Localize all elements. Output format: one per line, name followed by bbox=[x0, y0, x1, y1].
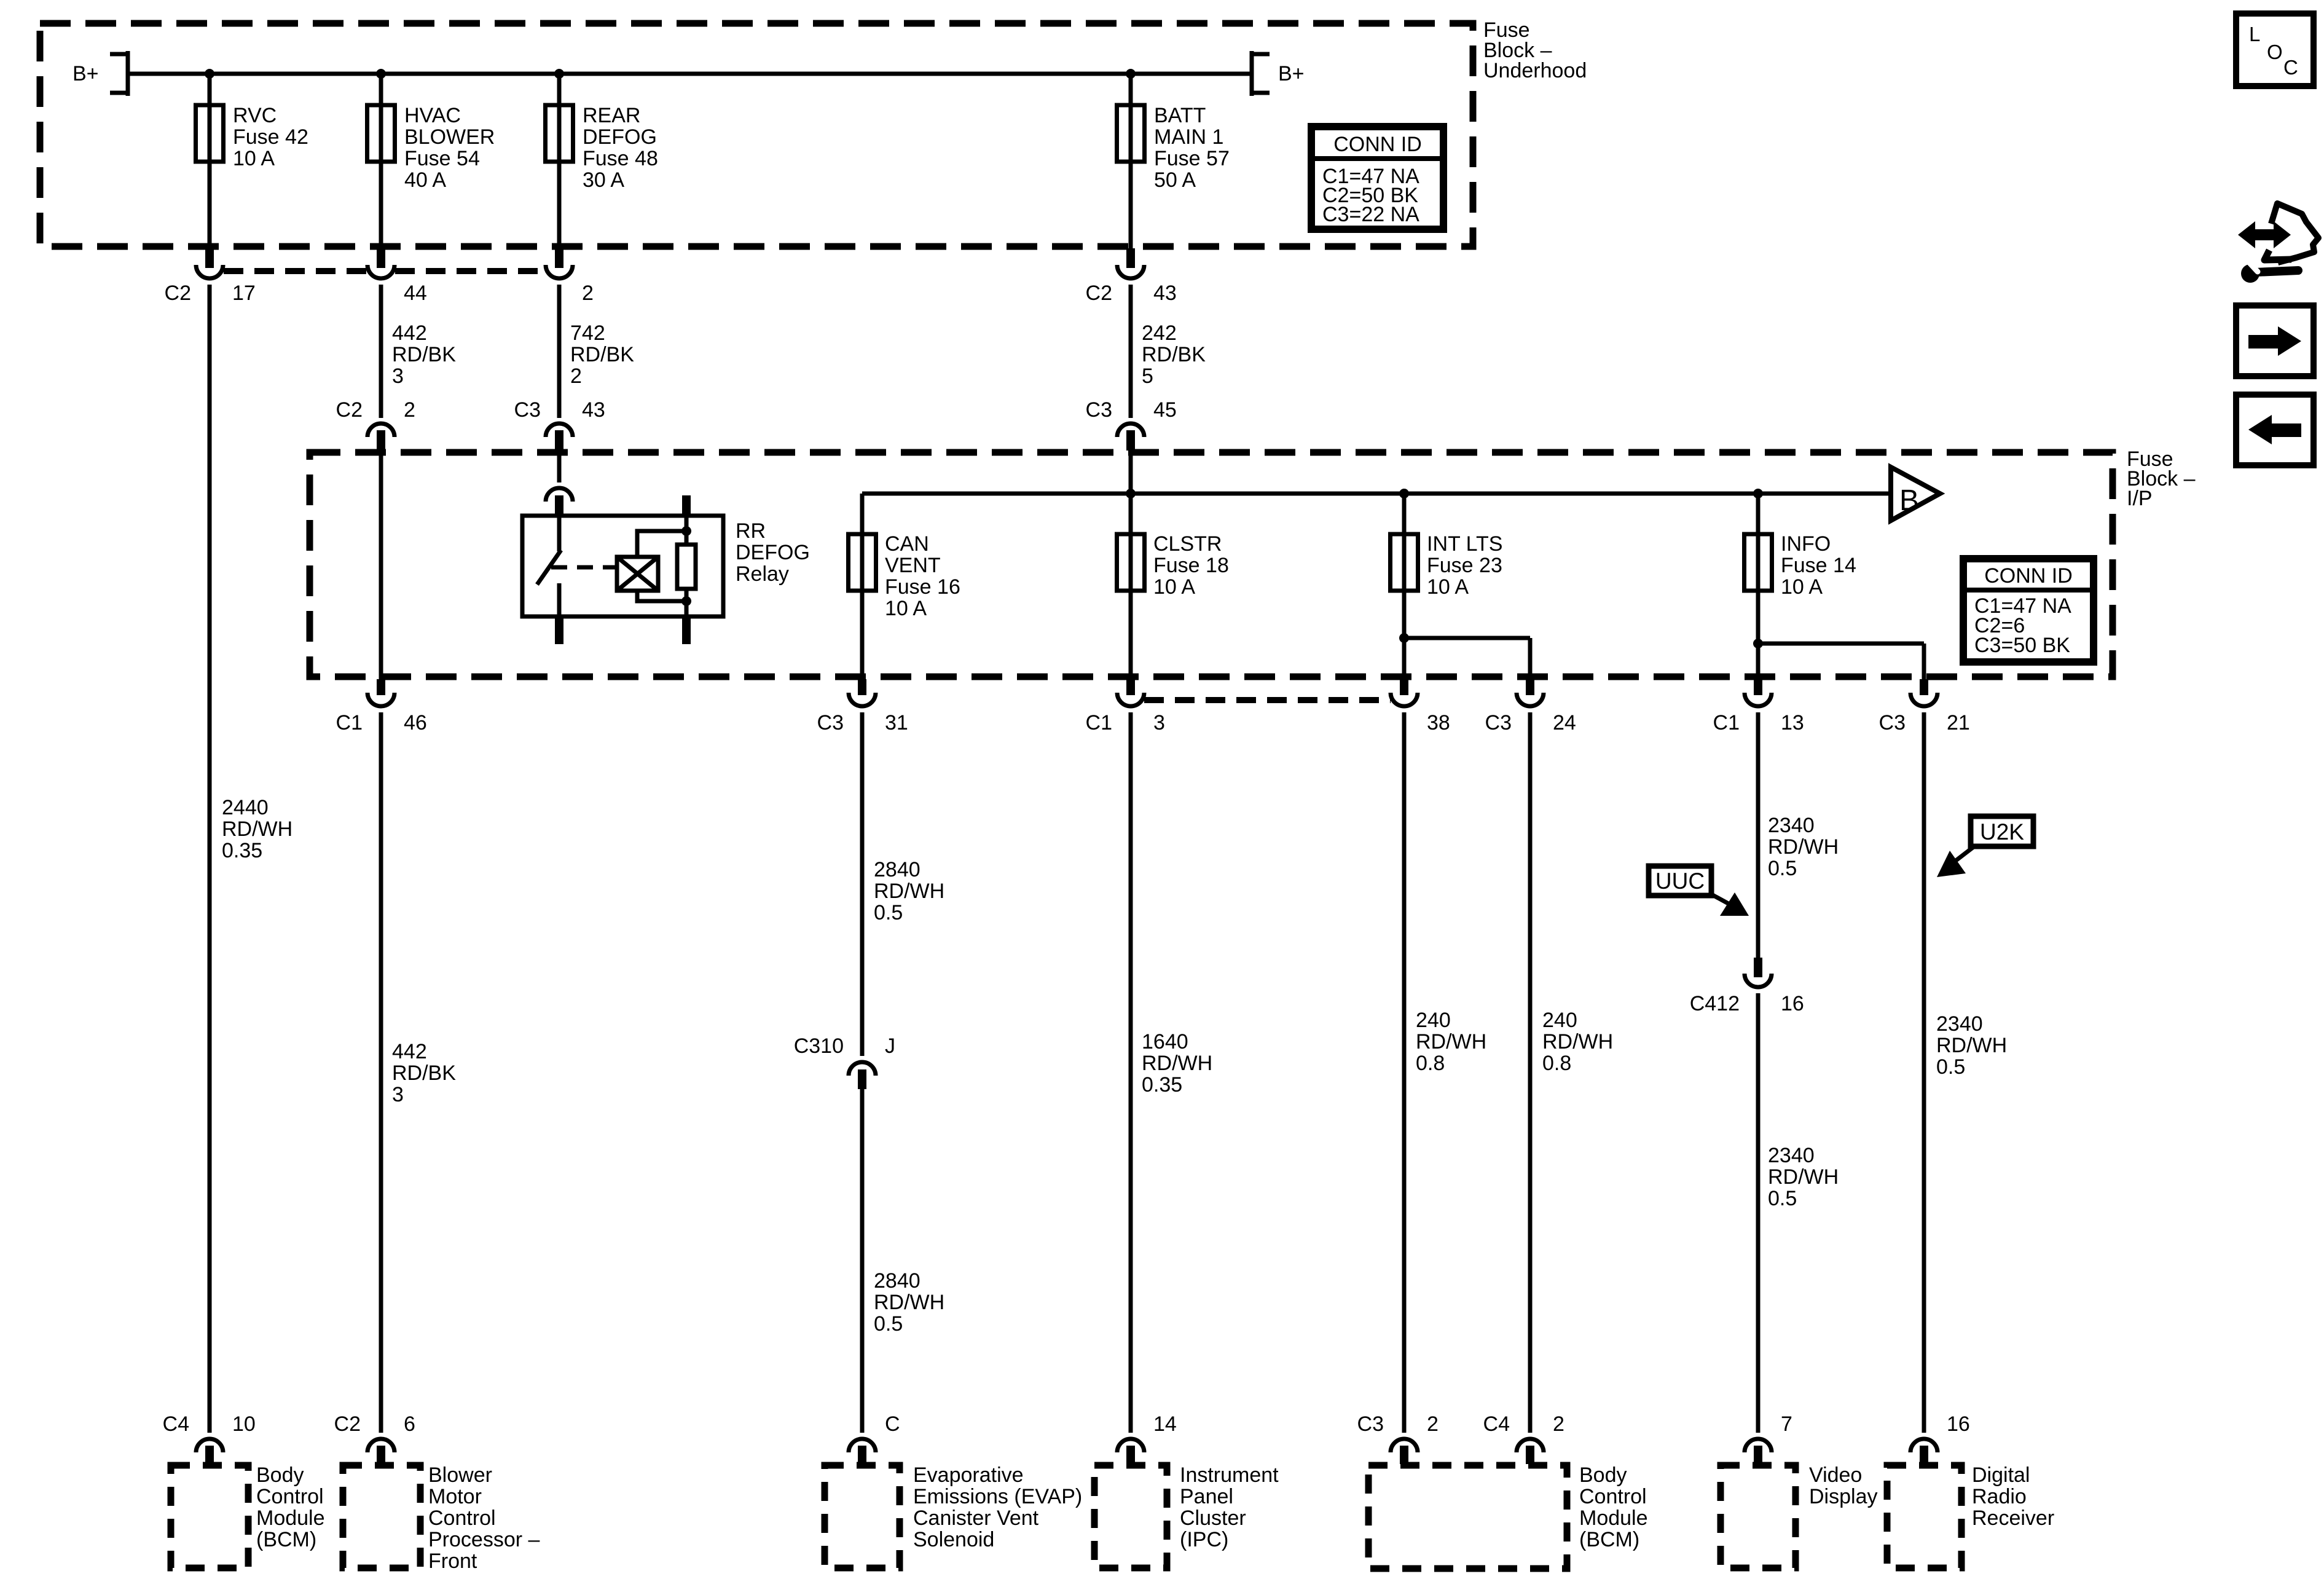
EVAP Canister Vent Solenoid box bbox=[825, 1463, 1082, 1568]
svg-text:Relay: Relay bbox=[736, 562, 789, 586]
svg-text:C3: C3 bbox=[514, 398, 541, 422]
svg-text:RD/WH: RD/WH bbox=[1416, 1030, 1486, 1053]
svg-text:Fuse 54: Fuse 54 bbox=[404, 147, 480, 170]
svg-text:10 A: 10 A bbox=[233, 147, 275, 170]
relay stub tick bottom right bbox=[682, 616, 691, 644]
junction node coil top bbox=[681, 526, 691, 536]
wire 442 inside I/P bbox=[379, 451, 383, 680]
svg-text:3: 3 bbox=[1153, 711, 1165, 734]
wire CAN VENT drop bbox=[860, 494, 865, 680]
svg-text:RD/BK: RD/BK bbox=[1142, 343, 1206, 366]
connector C310 pin J bbox=[794, 1034, 895, 1089]
svg-text:CONN ID: CONN ID bbox=[1984, 564, 2073, 588]
junction node at RVC bbox=[205, 69, 214, 79]
svg-text:C: C bbox=[2283, 56, 2298, 79]
svg-text:Module: Module bbox=[1579, 1506, 1648, 1530]
svg-text:RD/WH: RD/WH bbox=[1768, 1165, 1839, 1189]
svg-text:Front: Front bbox=[428, 1549, 477, 1573]
svg-text:Fuse 48: Fuse 48 bbox=[583, 147, 658, 170]
label 2340 RD/WH 0.5 right bbox=[1936, 1012, 2007, 1079]
svg-text:44: 44 bbox=[404, 282, 427, 305]
svg-text:2840: 2840 bbox=[874, 1269, 921, 1293]
wire B+ bus bbox=[128, 72, 1252, 76]
svg-text:C3: C3 bbox=[1086, 398, 1112, 422]
svg-text:46: 46 bbox=[404, 711, 427, 734]
svg-text:C3: C3 bbox=[1879, 711, 1906, 734]
svg-text:MAIN 1: MAIN 1 bbox=[1154, 125, 1223, 149]
Body Control Module (BCM) box right bbox=[1368, 1463, 1648, 1569]
svg-text:C2: C2 bbox=[165, 282, 191, 305]
svg-text:INT LTS: INT LTS bbox=[1427, 532, 1502, 556]
wire RVC to BCM (2440) bbox=[208, 285, 212, 1433]
service icon hand outline bbox=[2271, 203, 2318, 262]
svg-text:3: 3 bbox=[392, 364, 404, 388]
svg-text:(IPC): (IPC) bbox=[1180, 1528, 1228, 1551]
junction node at HVAC bbox=[376, 69, 386, 79]
Body Control Module (BCM) box left bbox=[171, 1463, 325, 1568]
svg-text:Digital: Digital bbox=[1972, 1463, 2030, 1487]
connector C3 pin 2 (bottom) bbox=[1357, 1412, 1439, 1464]
connector pin 7 (bottom) bbox=[1745, 1412, 1792, 1464]
connector C3 pin 31 (row 3) bbox=[817, 679, 908, 734]
svg-text:C4: C4 bbox=[1483, 1412, 1510, 1436]
junction node INFO branch bbox=[1753, 639, 1763, 648]
wire INFO branch horizontal bbox=[1758, 642, 1924, 646]
svg-text:BLOWER: BLOWER bbox=[404, 125, 495, 149]
svg-text:Display: Display bbox=[1809, 1485, 1877, 1508]
connector C3 pin 24 (row 3) bbox=[1485, 679, 1576, 734]
svg-text:Processor –: Processor – bbox=[428, 1528, 540, 1551]
wire REAR DEFOG drop bbox=[557, 74, 562, 249]
svg-text:Canister Vent: Canister Vent bbox=[913, 1506, 1039, 1530]
junction node bus-CLSTR bbox=[1126, 489, 1136, 498]
svg-text:C3: C3 bbox=[1357, 1412, 1384, 1436]
connector pin 38 (row 3) bbox=[1391, 679, 1450, 734]
svg-text:C4: C4 bbox=[163, 1412, 189, 1436]
connector C2 pin 43 (row 1) bbox=[1086, 248, 1177, 305]
label RR DEFOG Relay bbox=[736, 519, 810, 586]
svg-text:0.5: 0.5 bbox=[1768, 1187, 1797, 1210]
svg-text:Evaporative: Evaporative bbox=[913, 1463, 1024, 1487]
label 442 RD/BK 3 upper bbox=[392, 321, 456, 388]
svg-text:38: 38 bbox=[1427, 711, 1450, 734]
wire into relay bbox=[557, 453, 562, 482]
label 240 RD/WH 0.8 second bbox=[1542, 1009, 1613, 1075]
fuse HVAC BLOWER Fuse 54 bbox=[367, 105, 395, 162]
svg-text:I/P: I/P bbox=[2127, 487, 2153, 510]
label 2340 RD/WH 0.5 upper bbox=[1768, 814, 1839, 880]
connector C3 pin 43 (row 2) bbox=[514, 398, 605, 451]
svg-text:2: 2 bbox=[404, 398, 415, 422]
svg-text:Motor: Motor bbox=[428, 1485, 482, 1508]
relay actuating dashed link bbox=[551, 565, 616, 570]
svg-text:Receiver: Receiver bbox=[1972, 1506, 2054, 1530]
svg-text:3: 3 bbox=[392, 1083, 404, 1106]
svg-text:40 A: 40 A bbox=[404, 168, 446, 192]
fuse RVC Fuse 42 bbox=[196, 105, 224, 162]
relay coil bottom lead bbox=[637, 591, 686, 601]
wire 2840 lower segment bbox=[860, 1089, 865, 1433]
svg-text:43: 43 bbox=[582, 398, 605, 422]
wire INT LTS drop bbox=[1402, 494, 1407, 680]
label 2840 RD/WH 0.5 lower bbox=[874, 1269, 944, 1336]
svg-text:10: 10 bbox=[232, 1412, 256, 1436]
junction node bus-INT LTS bbox=[1399, 489, 1409, 498]
svg-text:VENT: VENT bbox=[885, 554, 941, 577]
wire 2340 upper segment bbox=[1756, 712, 1761, 958]
CONN ID table I/P bbox=[1963, 559, 2094, 662]
wire 2340 lower segment bbox=[1756, 993, 1761, 1433]
svg-text:0.8: 0.8 bbox=[1416, 1052, 1445, 1075]
wire HVAC drop bbox=[379, 74, 383, 249]
fuse block underhood dashed box bbox=[40, 23, 1473, 246]
svg-text:Video: Video bbox=[1809, 1463, 1862, 1487]
svg-text:Fuse 42: Fuse 42 bbox=[233, 125, 308, 149]
svg-text:Solenoid: Solenoid bbox=[913, 1528, 994, 1551]
svg-text:C3=50 BK: C3=50 BK bbox=[1974, 634, 2070, 657]
svg-text:C412: C412 bbox=[1690, 992, 1740, 1015]
svg-text:240: 240 bbox=[1416, 1009, 1451, 1032]
svg-text:Control: Control bbox=[428, 1506, 496, 1530]
B+ terminal right bbox=[1252, 51, 1270, 96]
svg-text:442: 442 bbox=[392, 1040, 427, 1063]
svg-text:Panel: Panel bbox=[1180, 1485, 1233, 1508]
junction node INT LTS branch bbox=[1399, 633, 1409, 643]
svg-text:C3: C3 bbox=[817, 711, 844, 734]
fuse block I/P dashed box bbox=[310, 452, 2113, 677]
relay coil (box with X) bbox=[617, 557, 658, 591]
service icon double arrow bbox=[2238, 221, 2291, 248]
svg-text:DEFOG: DEFOG bbox=[736, 541, 810, 564]
connector C1 pin 46 (row 3) bbox=[336, 679, 427, 734]
svg-text:RD/WH: RD/WH bbox=[874, 880, 944, 903]
connector C412 pin 16 bbox=[1690, 958, 1804, 1015]
wire RVC drop bbox=[208, 74, 212, 249]
wire INT LTS branch drop bbox=[1528, 638, 1533, 680]
svg-text:RD/WH: RD/WH bbox=[874, 1291, 944, 1314]
svg-text:C1: C1 bbox=[1086, 711, 1112, 734]
svg-text:0.5: 0.5 bbox=[1768, 857, 1797, 880]
connector C2 pin 6 (bottom) bbox=[334, 1412, 415, 1464]
svg-text:RVC: RVC bbox=[233, 104, 277, 127]
wire 2840 upper segment bbox=[860, 712, 865, 1056]
svg-text:Control: Control bbox=[1579, 1485, 1647, 1508]
label 240 RD/WH 0.8 first bbox=[1416, 1009, 1486, 1075]
label 2440 RD/WH 0.35 bbox=[222, 796, 292, 862]
dotted connector line row 1b bbox=[395, 268, 545, 274]
fuse REAR DEFOG Fuse 48 bbox=[546, 105, 573, 162]
svg-text:17: 17 bbox=[232, 282, 256, 305]
svg-text:Module: Module bbox=[256, 1506, 325, 1530]
svg-text:Fuse 14: Fuse 14 bbox=[1781, 554, 1856, 577]
svg-text:10 A: 10 A bbox=[1781, 575, 1823, 599]
label Fuse Block - I/P bbox=[2127, 447, 2196, 510]
svg-text:UUC: UUC bbox=[1655, 868, 1705, 894]
label 742 RD/BK 2 bbox=[570, 321, 634, 388]
svg-text:2340: 2340 bbox=[1936, 1012, 1983, 1036]
wire 1640 lower segment bbox=[1129, 712, 1133, 1433]
back arrow icon bbox=[2236, 395, 2314, 465]
relay RR DEFOG box bbox=[522, 516, 723, 616]
svg-text:1640: 1640 bbox=[1142, 1030, 1188, 1053]
Instrument Panel Cluster box bbox=[1094, 1463, 1279, 1568]
connector pin 14 (bottom) bbox=[1117, 1412, 1177, 1464]
svg-text:C2: C2 bbox=[1086, 282, 1112, 305]
label 1640 RD/WH 0.35 bbox=[1142, 1030, 1212, 1097]
svg-text:Fuse 18: Fuse 18 bbox=[1153, 554, 1229, 577]
relay right pin wire lower bbox=[685, 589, 689, 616]
svg-text:BATT: BATT bbox=[1154, 104, 1206, 127]
svg-text:0.5: 0.5 bbox=[874, 901, 903, 924]
svg-text:Body: Body bbox=[1579, 1463, 1627, 1487]
svg-text:Underhood: Underhood bbox=[1483, 59, 1587, 82]
svg-text:U2K: U2K bbox=[1980, 819, 2024, 845]
svg-text:2840: 2840 bbox=[874, 858, 921, 881]
fuse INT LTS Fuse 23 bbox=[1391, 534, 1418, 591]
svg-text:43: 43 bbox=[1153, 282, 1177, 305]
svg-text:0.5: 0.5 bbox=[1936, 1055, 1965, 1079]
svg-text:CAN: CAN bbox=[885, 532, 929, 556]
svg-text:RD/BK: RD/BK bbox=[392, 343, 456, 366]
label 442 RD/BK 3 lower bbox=[392, 1040, 456, 1106]
relay coil top lead bbox=[637, 531, 686, 557]
svg-text:C3: C3 bbox=[1485, 711, 1512, 734]
svg-text:16: 16 bbox=[1947, 1412, 1970, 1436]
svg-text:6: 6 bbox=[404, 1412, 415, 1436]
relay stub tick bottom left bbox=[555, 616, 563, 644]
svg-text:J: J bbox=[885, 1034, 895, 1058]
svg-text:0.35: 0.35 bbox=[1142, 1073, 1182, 1097]
wire 2340 right branch lower bbox=[1922, 712, 1926, 1433]
relay switch blade bbox=[537, 550, 561, 585]
connector C2 pin 2 (row 2) bbox=[336, 398, 415, 451]
wire 742 upper segment bbox=[557, 285, 562, 418]
svg-text:Fuse 16: Fuse 16 bbox=[885, 575, 960, 599]
svg-text:RD/WH: RD/WH bbox=[1142, 1052, 1212, 1075]
connector C4 pin 2 (bottom) bbox=[1483, 1412, 1564, 1464]
svg-text:2: 2 bbox=[1553, 1412, 1564, 1436]
wire 240 second bbox=[1528, 712, 1533, 1433]
connector at relay pin bbox=[546, 488, 573, 502]
svg-text:B+: B+ bbox=[1278, 62, 1305, 85]
CONN ID table underhood bbox=[1311, 127, 1443, 229]
svg-text:7: 7 bbox=[1781, 1412, 1792, 1436]
arrow B off-page bbox=[1891, 467, 1940, 521]
svg-text:0.8: 0.8 bbox=[1542, 1052, 1571, 1075]
junction node at BATT MAIN bbox=[1126, 69, 1136, 79]
svg-text:Fuse 57: Fuse 57 bbox=[1154, 147, 1230, 170]
svg-text:(BCM): (BCM) bbox=[256, 1528, 316, 1551]
svg-text:Radio: Radio bbox=[1972, 1485, 2027, 1508]
connector pin C (bottom) bbox=[849, 1412, 900, 1464]
wire BATT MAIN into I/P bbox=[1129, 453, 1133, 680]
svg-text:Cluster: Cluster bbox=[1180, 1506, 1246, 1530]
svg-text:Emissions (EVAP): Emissions (EVAP) bbox=[913, 1485, 1082, 1508]
svg-text:14: 14 bbox=[1153, 1412, 1177, 1436]
forward arrow icon bbox=[2236, 305, 2314, 376]
connector C1 pin 3 (row 3) bbox=[1086, 679, 1165, 734]
svg-text:RD/WH: RD/WH bbox=[1768, 835, 1839, 859]
svg-text:C: C bbox=[885, 1412, 900, 1436]
svg-text:0.35: 0.35 bbox=[222, 839, 262, 862]
fuse CAN VENT Fuse 16 bbox=[849, 534, 876, 591]
service icon wrench bbox=[2241, 263, 2298, 283]
dotted connector line row 1 bbox=[224, 268, 367, 274]
relay switch pin wire bbox=[557, 518, 562, 551]
svg-text:2440: 2440 bbox=[222, 796, 269, 819]
wire BATT MAIN drop bbox=[1129, 74, 1133, 249]
svg-text:C1: C1 bbox=[1713, 711, 1740, 734]
svg-text:742: 742 bbox=[570, 321, 605, 345]
relay resistor bbox=[677, 545, 696, 589]
svg-text:REAR: REAR bbox=[583, 104, 640, 127]
svg-text:442: 442 bbox=[392, 321, 427, 345]
label 2840 RD/WH 0.5 upper bbox=[874, 858, 944, 924]
svg-text:2: 2 bbox=[582, 282, 594, 305]
B+ terminal left bbox=[110, 51, 128, 96]
label 2340 RD/WH 0.5 lower bbox=[1768, 1144, 1839, 1210]
svg-text:5: 5 bbox=[1142, 364, 1153, 388]
junction node at REAR DEFOG bbox=[554, 69, 564, 79]
Blower Motor Control Processor box bbox=[343, 1463, 540, 1573]
relay switch lower contact bbox=[557, 583, 562, 616]
svg-text:Control: Control bbox=[256, 1485, 324, 1508]
LOC icon box bbox=[2236, 14, 2314, 86]
svg-text:RD/WH: RD/WH bbox=[1542, 1030, 1613, 1053]
svg-text:2340: 2340 bbox=[1768, 1144, 1815, 1167]
svg-text:16: 16 bbox=[1781, 992, 1804, 1015]
svg-text:INFO: INFO bbox=[1781, 532, 1831, 556]
svg-text:L: L bbox=[2249, 23, 2260, 45]
label 242 RD/BK 5 bbox=[1142, 321, 1206, 388]
junction node bus-INFO bbox=[1753, 489, 1763, 498]
relay stub tick top right bbox=[682, 495, 691, 516]
svg-text:Body: Body bbox=[256, 1463, 304, 1487]
svg-text:(BCM): (BCM) bbox=[1579, 1528, 1639, 1551]
svg-text:C2: C2 bbox=[334, 1412, 361, 1436]
svg-text:DEFOG: DEFOG bbox=[583, 125, 657, 149]
fuse CLSTR Fuse 18 bbox=[1117, 534, 1145, 591]
svg-text:B+: B+ bbox=[73, 62, 99, 85]
connector C3 pin 21 (row 3) bbox=[1879, 679, 1970, 734]
svg-text:O: O bbox=[2267, 41, 2283, 63]
svg-text:242: 242 bbox=[1142, 321, 1177, 345]
svg-text:31: 31 bbox=[885, 711, 908, 734]
wire 240 first bbox=[1402, 712, 1407, 1433]
svg-text:2340: 2340 bbox=[1768, 814, 1815, 837]
svg-text:2: 2 bbox=[1427, 1412, 1439, 1436]
svg-text:240: 240 bbox=[1542, 1009, 1577, 1032]
fuse BATT MAIN 1 Fuse 57 bbox=[1117, 105, 1145, 162]
Digital Radio Receiver box bbox=[1887, 1463, 2054, 1568]
connector C1 pin 13 (row 3) bbox=[1713, 679, 1804, 734]
svg-text:2: 2 bbox=[570, 364, 582, 388]
wire INFO drop bbox=[1756, 494, 1761, 680]
fuse INFO Fuse 14 bbox=[1745, 534, 1772, 591]
svg-text:RD/WH: RD/WH bbox=[1936, 1034, 2007, 1057]
connector pin 44 (row 1) bbox=[367, 248, 427, 305]
U2K tag with arrow bbox=[1937, 816, 2033, 877]
wire 242 upper segment bbox=[1129, 285, 1133, 418]
label Fuse Block - Underhood bbox=[1483, 18, 1587, 82]
svg-text:RD/BK: RD/BK bbox=[570, 343, 634, 366]
svg-text:CLSTR: CLSTR bbox=[1153, 532, 1222, 556]
connector pin 2 (row 1) bbox=[546, 248, 594, 305]
svg-text:10 A: 10 A bbox=[1427, 575, 1469, 599]
svg-text:CONN ID: CONN ID bbox=[1333, 133, 1422, 156]
dotted connector line row 3 bbox=[1144, 697, 1391, 703]
wire INT LTS branch horizontal bbox=[1404, 636, 1530, 640]
connector C3 pin 45 (row 2) bbox=[1086, 398, 1177, 451]
svg-text:50 A: 50 A bbox=[1154, 168, 1196, 192]
connector pin 16 (bottom) bbox=[1910, 1412, 1970, 1464]
svg-text:24: 24 bbox=[1553, 711, 1576, 734]
wire 442 upper segment bbox=[379, 285, 383, 418]
svg-text:Blower: Blower bbox=[428, 1463, 492, 1487]
svg-text:45: 45 bbox=[1153, 398, 1177, 422]
svg-text:RD/BK: RD/BK bbox=[392, 1061, 456, 1085]
junction node coil bottom bbox=[681, 596, 691, 606]
svg-text:C310: C310 bbox=[794, 1034, 844, 1058]
svg-text:Fuse 23: Fuse 23 bbox=[1427, 554, 1502, 577]
svg-text:HVAC: HVAC bbox=[404, 104, 461, 127]
svg-text:Instrument: Instrument bbox=[1180, 1463, 1279, 1487]
connector C2 pin 17 (row 1) bbox=[165, 248, 256, 305]
relay right pin wire upper bbox=[685, 518, 689, 545]
svg-text:C3=22 NA: C3=22 NA bbox=[1322, 203, 1419, 226]
svg-text:13: 13 bbox=[1781, 711, 1804, 734]
wire 442 lower segment bbox=[379, 712, 383, 1433]
svg-text:C2: C2 bbox=[336, 398, 363, 422]
svg-text:B: B bbox=[1899, 484, 1919, 517]
wire INFO branch drop bbox=[1922, 644, 1926, 680]
connector C4 pin 10 (bottom) bbox=[163, 1412, 256, 1464]
svg-text:10 A: 10 A bbox=[1153, 575, 1195, 599]
svg-text:RR: RR bbox=[736, 519, 766, 543]
Video Display box bbox=[1721, 1463, 1877, 1568]
svg-text:RD/WH: RD/WH bbox=[222, 817, 292, 841]
svg-text:30 A: 30 A bbox=[583, 168, 624, 192]
service icon hand foot bbox=[2264, 250, 2291, 260]
svg-text:C1: C1 bbox=[336, 711, 363, 734]
svg-text:0.5: 0.5 bbox=[874, 1312, 903, 1336]
svg-text:21: 21 bbox=[1947, 711, 1970, 734]
UUC tag with arrow bbox=[1649, 866, 1749, 916]
svg-text:10 A: 10 A bbox=[885, 597, 927, 620]
wire I/P bus bbox=[862, 492, 1891, 496]
